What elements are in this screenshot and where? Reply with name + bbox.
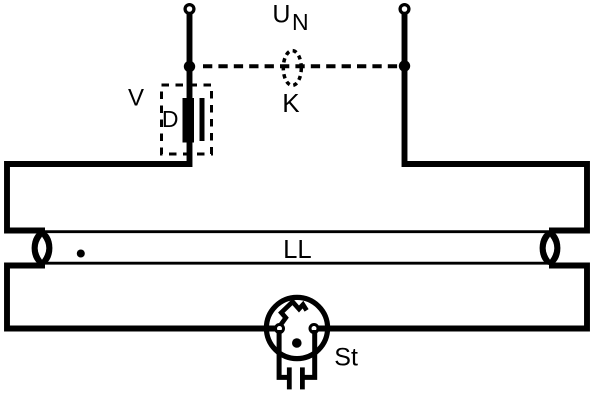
starter right contact <box>310 325 318 333</box>
starter St outer circle <box>266 297 327 358</box>
svg-text:K: K <box>282 88 300 118</box>
wire: left terminal down through choke, left rail, down left edge, to lamp left top <box>7 12 190 231</box>
svg-text:U: U <box>272 0 290 28</box>
svg-text:LL: LL <box>283 236 312 264</box>
choke D body <box>183 98 195 143</box>
starter left pin <box>279 330 289 377</box>
choke core bar <box>200 98 205 141</box>
capacitor K dashed oval <box>283 51 301 86</box>
svg-text:N: N <box>292 9 309 35</box>
starter glow dot <box>292 338 302 348</box>
starter right pin <box>302 330 314 377</box>
svg-text:V: V <box>128 85 144 112</box>
left supply terminal <box>185 5 194 14</box>
right filament electrode <box>540 231 561 265</box>
wire: right terminal down, right rail, down right edge, to lamp right top <box>405 12 588 231</box>
lamp tube LL outline bottom edge <box>42 262 551 265</box>
junction node right <box>399 60 410 71</box>
left filament electrode <box>32 231 53 265</box>
junction node left <box>184 61 195 72</box>
right supply terminal <box>400 5 409 14</box>
dashed wire between junctions <box>203 64 398 68</box>
starter bimetal zigzag <box>280 302 306 326</box>
wire: starter right contact, bottom rail, up right edge, to lamp right bottom <box>314 266 587 329</box>
gas dot inside lamp <box>77 250 85 258</box>
svg-text:D: D <box>162 106 179 132</box>
ballast dashed box V <box>162 85 212 154</box>
lamp tube LL outline top edge <box>42 230 551 233</box>
starter left contact <box>276 325 284 333</box>
wire: lamp left bottom, down left edge, bottom rail to starter left contact <box>7 266 280 329</box>
svg-text:St: St <box>334 344 358 372</box>
